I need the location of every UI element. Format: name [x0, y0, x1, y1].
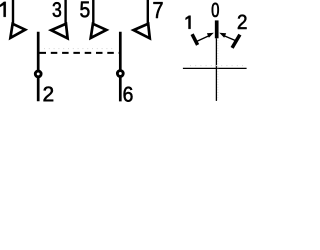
- terminal label 5: [80, 2, 89, 18]
- spring-return arrowhead to 0 (left): [207, 33, 214, 38]
- spring-return arrowhead to 0 (right): [219, 33, 226, 38]
- pole A terminal circle: [35, 71, 41, 77]
- handle position 1 bar: [192, 34, 198, 45]
- contact 7 terminal line: [147, 0, 149, 24]
- pole B moving-contact bar (common of 5-7): [119, 32, 122, 102]
- contact 5 terminal line: [92, 0, 94, 24]
- terminal label 6: [124, 87, 133, 102]
- pole A moving-contact bar (common of 1-3): [37, 32, 40, 101]
- handle position 2 bar: [232, 35, 240, 48]
- faint dotted line right of vertical axis: [217, 40, 219, 100]
- handle position label 2: [238, 15, 247, 29]
- terminal label 3: [53, 2, 61, 17]
- spring-return arrow shaft from position 1: [196, 36, 209, 42]
- contact 7 fixed-contact triangle: [134, 24, 150, 39]
- terminal label 7: [153, 2, 162, 18]
- contact 3 terminal line: [64, 0, 66, 24]
- handle position label 0: [212, 3, 219, 17]
- handle position label 1: [186, 16, 191, 29]
- spring-return arrow shaft from position 2: [224, 36, 237, 42]
- terminal label 1: [0, 2, 6, 17]
- handle position 0 bar: [215, 20, 219, 38]
- terminal label 2: [44, 86, 54, 101]
- contact 5 fixed-contact triangle: [91, 24, 107, 38]
- contact 1 terminal line: [12, 0, 14, 24]
- contact 3 fixed-contact triangle: [51, 24, 67, 39]
- mechanical link dashed line: [40, 52, 120, 54]
- handle axis vertical line: [215, 38, 217, 101]
- handle axis horizontal line: [183, 67, 247, 69]
- pole B terminal circle: [117, 71, 123, 77]
- faint dotted companion line above link: [44, 48, 116, 50]
- contact 1 fixed-contact triangle: [10, 24, 25, 38]
- faint dotted line above horizontal axis: [190, 65, 244, 67]
